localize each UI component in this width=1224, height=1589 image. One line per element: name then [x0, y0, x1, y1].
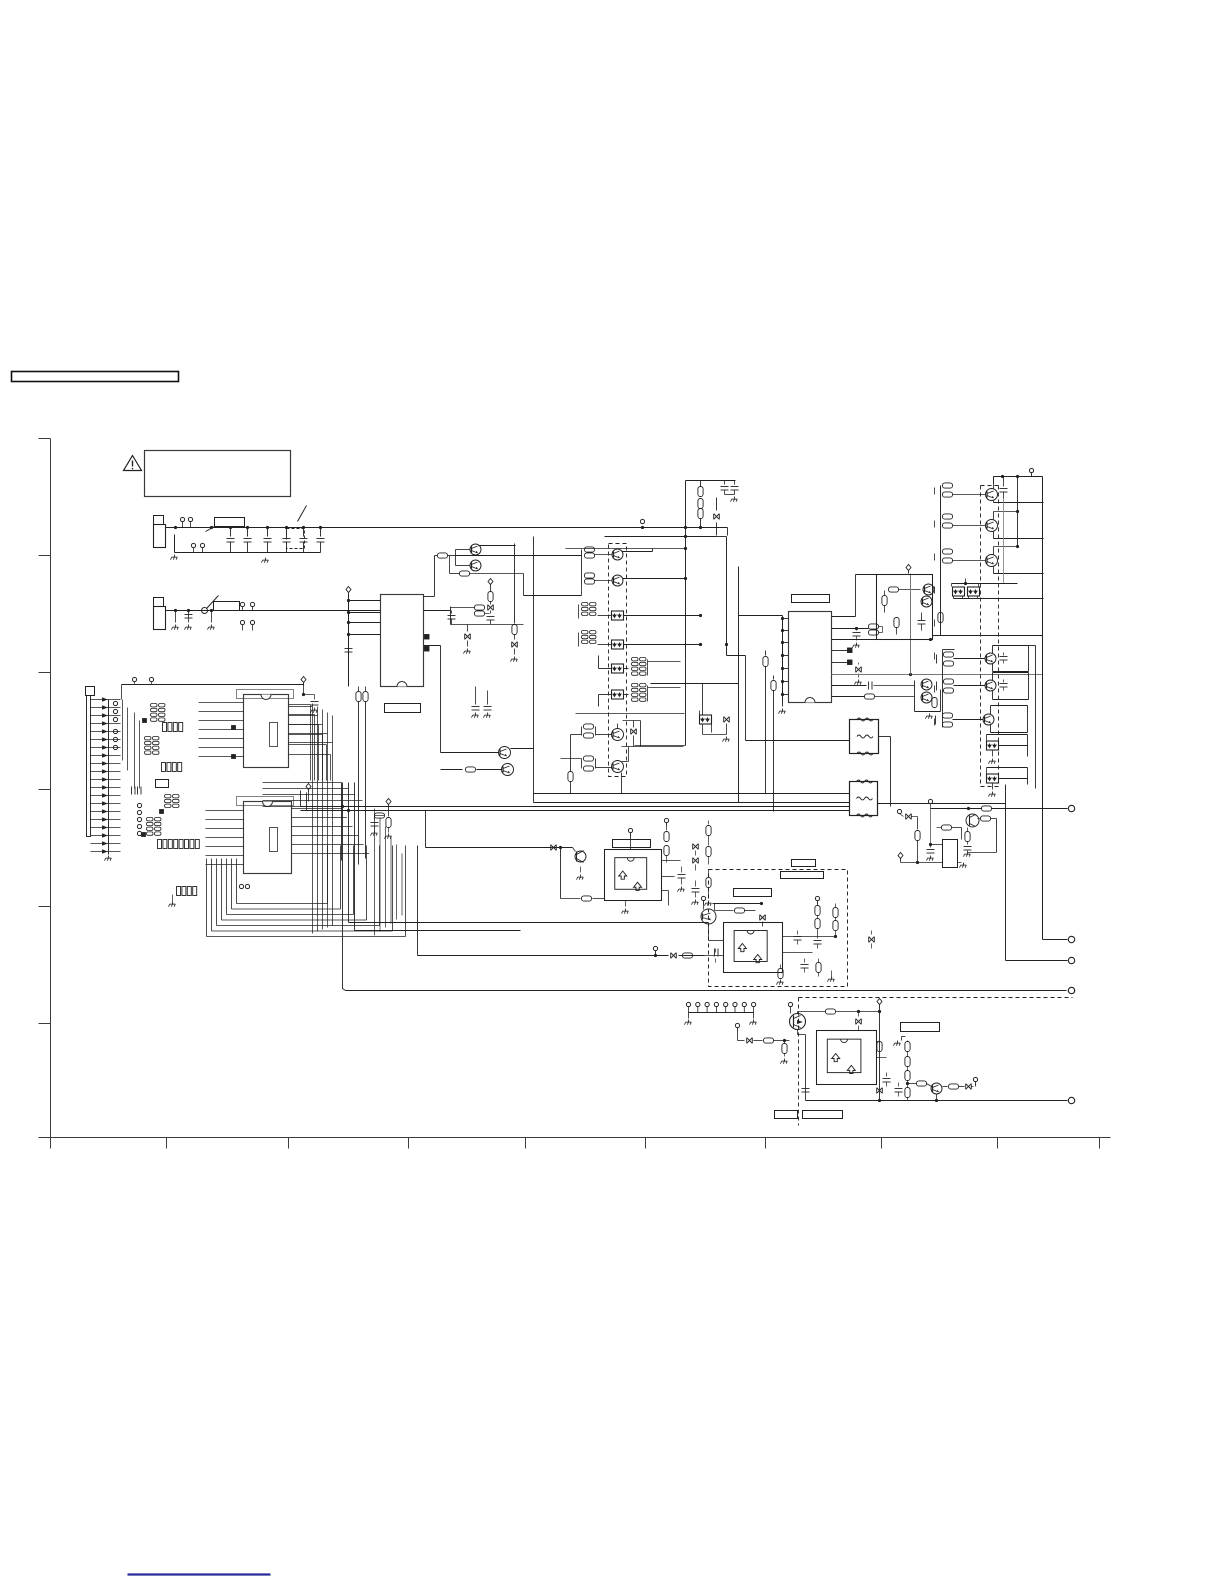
power terminal TP1	[994, 468, 1043, 476]
wire Q61 gate feed	[735, 1023, 744, 1040]
wire A3 link b	[877, 1057, 887, 1059]
dashed control box	[709, 870, 848, 987]
wire A1 top	[628, 828, 632, 849]
wire bottom out	[806, 1095, 1068, 1103]
capacitor C43	[1000, 680, 1008, 691]
terminal TPA	[1068, 805, 1074, 811]
resistor R62	[781, 1041, 788, 1064]
IC U2	[244, 802, 292, 874]
wire Q3 out	[511, 748, 534, 750]
capacitor C53	[678, 867, 686, 892]
dots bundle	[341, 805, 350, 812]
ground CN3	[105, 856, 112, 861]
wire out bus a	[940, 486, 942, 636]
terminal TPC	[1068, 1097, 1074, 1103]
transistor Q11	[921, 679, 932, 690]
IC1 pin wire a	[424, 610, 451, 612]
wire h955b	[679, 955, 705, 957]
wire mid drop b	[487, 691, 489, 701]
optocoupler PC3	[612, 664, 624, 673]
comparator A1	[605, 850, 662, 901]
wire row1 gnd bus	[175, 552, 321, 554]
wire main out B	[301, 810, 850, 812]
mid bus tops	[263, 783, 370, 807]
IC2 label box	[792, 595, 830, 603]
resistor R73	[964, 828, 972, 857]
dashed box row1	[287, 529, 305, 549]
wire A2 out right	[783, 935, 838, 938]
resistor R63	[826, 1009, 882, 1014]
IC U1	[244, 695, 289, 768]
capacitor C58	[801, 959, 809, 973]
capacitor C41	[1000, 477, 1008, 499]
CN3 pin arrows	[103, 698, 107, 853]
IC U1 header	[237, 690, 294, 699]
resistor array RA16	[177, 887, 197, 896]
wire out seg	[931, 806, 1068, 811]
resistor R53	[664, 829, 669, 863]
wire reg in	[931, 844, 943, 846]
power TP Q61	[788, 1002, 792, 1013]
wire T1 right	[879, 737, 891, 807]
wire row1 main	[166, 527, 728, 529]
resistor pair RA6	[585, 573, 613, 584]
power rail x879	[877, 999, 882, 1101]
wire A2 out right2	[783, 952, 813, 954]
comparator A3	[817, 1031, 877, 1085]
transistor Q62	[931, 1083, 942, 1094]
wires RA feeds	[121, 701, 151, 758]
wire h740	[576, 714, 850, 746]
wire A1 right cluster	[662, 861, 681, 877]
wire h683	[651, 683, 739, 685]
U1 right pin wires	[289, 705, 331, 781]
wire x425 drop	[425, 811, 427, 848]
transistor Q8	[612, 761, 624, 773]
U2 bundle drops	[375, 809, 403, 936]
terminal TPB	[1068, 987, 1074, 993]
IC U2 header	[237, 797, 294, 806]
capacitor C61	[802, 1085, 810, 1093]
power dia reg	[898, 853, 903, 863]
wire h802	[534, 802, 850, 804]
wire A3 link a	[877, 1041, 880, 1043]
wire PC1 out	[624, 615, 701, 617]
wire pwr riser	[1017, 477, 1019, 547]
wire h955 into box	[705, 955, 724, 957]
diode D62	[856, 1012, 862, 1031]
cap row2	[185, 615, 193, 619]
label box LB6	[803, 1111, 843, 1119]
resistor R22	[763, 651, 768, 794]
IC2 pin r5	[832, 660, 853, 665]
diode D11	[488, 605, 494, 611]
connector CN3	[86, 687, 95, 837]
pin square c	[142, 833, 146, 837]
label box LB3	[734, 889, 772, 897]
capacitor C57	[794, 931, 802, 945]
optocoupler PC2	[612, 640, 624, 649]
terminal TPE	[1068, 936, 1074, 942]
optocoupler PC6	[953, 587, 965, 596]
wire opto out	[954, 597, 1044, 599]
capacitor C32	[918, 613, 926, 631]
transformer T1	[850, 718, 879, 755]
wire bus x685	[685, 481, 687, 746]
junction dots row1	[174, 526, 213, 529]
optocoupler PC7	[968, 587, 980, 596]
resistor R57	[815, 896, 820, 934]
resistor R14	[441, 767, 502, 772]
cluster right of U2	[371, 799, 392, 839]
dashed isolation box	[609, 544, 627, 777]
IC2 box	[789, 612, 832, 703]
wire h922	[349, 922, 709, 924]
relay RL1	[202, 596, 240, 614]
pin header J2	[686, 1002, 755, 1018]
capacitor C71	[927, 845, 935, 861]
resistor R67	[877, 1042, 882, 1052]
detector Q52	[575, 851, 586, 863]
resistor R11	[475, 605, 490, 616]
ground row1 a	[171, 555, 178, 560]
U2 right wire links	[292, 809, 370, 854]
wire opto loop b	[987, 768, 1028, 785]
resistor R64	[905, 1041, 910, 1101]
CN3 pad circles col2	[137, 803, 141, 835]
mosfet Q61	[790, 1014, 806, 1030]
output stage Q23	[941, 545, 1044, 574]
diode D54	[760, 915, 766, 927]
wire h955	[418, 955, 669, 957]
wire h990	[346, 990, 1067, 992]
wire PC4 in	[599, 688, 681, 707]
IC2 pin r6 gray	[832, 673, 1043, 676]
bus drop x365	[363, 687, 368, 859]
IC2 gnd	[779, 703, 786, 714]
transistor Q7	[612, 729, 624, 741]
resistor R23	[771, 676, 776, 812]
capacitors row1	[227, 526, 325, 553]
border ticks left	[39, 556, 51, 1024]
transistor Q10	[921, 596, 932, 607]
transistor Q4	[502, 764, 514, 776]
IC1 label box	[385, 704, 421, 713]
capacitor C12	[472, 701, 480, 718]
wire reg bottom	[901, 861, 943, 864]
output stage Q22	[941, 510, 1044, 539]
capacitor C11	[448, 611, 456, 625]
resistor array RA9	[624, 658, 648, 676]
wire Q61 source	[798, 1030, 806, 1101]
power Y D63	[972, 1077, 978, 1086]
diode D71	[906, 814, 918, 830]
horizontal h548	[566, 547, 688, 550]
optocoupler PC8	[987, 741, 999, 764]
transformer T2	[850, 780, 878, 817]
wire mid drop a	[475, 687, 477, 701]
ground box	[828, 971, 835, 982]
diode D21	[714, 498, 720, 536]
pin square b	[160, 810, 164, 814]
optocoupler PC1	[612, 611, 624, 620]
transistor Q1	[470, 544, 481, 555]
gray cap drop	[1003, 499, 1005, 584]
resistor R35	[894, 618, 899, 635]
U2 power	[306, 784, 311, 802]
diode D55	[869, 931, 875, 949]
output stage Q24	[937, 646, 1029, 672]
border ticks bottom	[167, 1138, 1100, 1149]
diode D12	[464, 625, 471, 654]
wire left bus x570	[561, 735, 582, 794]
U1 pin square a	[232, 726, 236, 730]
junction dots row2	[174, 609, 213, 612]
wire PC2 out	[624, 644, 701, 646]
wire top y683	[122, 685, 304, 700]
label box LB4	[901, 1023, 940, 1032]
resistor R74	[968, 816, 997, 853]
wire x417 drop	[417, 846, 419, 956]
wire x342 drop	[343, 783, 346, 991]
power dia K1	[906, 565, 911, 574]
U2 inner window	[270, 828, 278, 852]
capacitor C22	[725, 481, 739, 502]
diode D23	[723, 717, 730, 742]
ground A1	[577, 867, 584, 880]
transistor Q5	[612, 549, 623, 560]
wire row1 to x727	[727, 528, 729, 536]
U1 pin square b	[232, 755, 236, 759]
wire y555 long	[456, 555, 582, 557]
capacitor C13	[484, 701, 492, 718]
grounds row2	[172, 611, 215, 630]
wire h847	[426, 847, 573, 849]
comparator A2	[724, 923, 783, 973]
diode D52	[671, 953, 677, 959]
resistor R32	[869, 624, 883, 635]
wire box right link	[848, 936, 872, 938]
wire Q2 out	[450, 556, 524, 596]
wire bus top	[686, 480, 736, 482]
gray rail x930	[929, 807, 932, 847]
capacitor C51	[132, 787, 136, 795]
wire Q8 emitter	[621, 773, 623, 794]
dashed right box	[981, 486, 999, 787]
IC1 pin loop	[451, 607, 524, 625]
IC1 box	[381, 595, 424, 687]
power Y h955	[653, 946, 657, 957]
footer link line	[128, 1573, 271, 1575]
resistor R72	[937, 825, 962, 840]
wire row2 main	[166, 610, 381, 612]
wire opto bus	[952, 579, 1018, 587]
power dia top	[301, 677, 306, 686]
dashed run bottom	[799, 997, 1073, 999]
IC2 left rail	[782, 616, 784, 703]
driver box K1	[877, 575, 933, 640]
wire q62 base	[906, 1081, 932, 1087]
comparator A1 label	[613, 840, 651, 848]
resistor array RA8	[579, 631, 612, 647]
diode D61	[747, 1038, 753, 1044]
label box LB2	[781, 872, 824, 879]
CN3 bus vertical	[108, 700, 110, 855]
connector CN2	[154, 598, 166, 630]
CN3 crossing bus wires	[123, 700, 140, 789]
diode D22	[631, 721, 637, 747]
test points row2	[240, 602, 254, 610]
U1 inner window	[270, 723, 278, 747]
resistor pair RA12	[582, 756, 612, 771]
optocoupler PC4	[612, 690, 624, 699]
output stage Q21	[941, 477, 1044, 503]
test point TP8	[897, 809, 903, 816]
wire h930	[355, 930, 521, 932]
resistor R61	[764, 1038, 790, 1043]
jumper row1	[298, 506, 307, 522]
label box LB5	[775, 1111, 798, 1119]
resistor array RA15	[158, 840, 200, 849]
resistor R12	[511, 544, 518, 662]
wire y595 long	[524, 586, 582, 596]
wire A2 feed	[709, 924, 724, 941]
IC2 pin r2	[832, 628, 869, 630]
capacitor C64	[895, 1083, 903, 1097]
regulator U71	[943, 840, 958, 868]
wire Q8 collector	[622, 747, 629, 762]
transistor Q53	[701, 909, 716, 924]
ground J2 b	[750, 1020, 757, 1025]
staircase bus wires	[207, 846, 406, 937]
border frame left rail	[50, 439, 52, 1149]
title box	[12, 372, 179, 382]
wire gate	[754, 1040, 763, 1042]
IC1 left cap	[345, 641, 353, 653]
mid bus verticals	[342, 783, 355, 931]
wire out collector d	[1029, 646, 1036, 789]
wire left bend B	[306, 793, 308, 811]
wire Q3 feed	[424, 646, 499, 753]
diode D51	[551, 845, 557, 851]
inductor L1 label	[206, 518, 245, 532]
resistor R13	[438, 550, 471, 566]
wire Q6 out	[623, 578, 686, 580]
label box LB1	[792, 860, 816, 867]
test points row1	[180, 517, 192, 527]
wire row1 drop	[174, 535, 176, 553]
ground A1 bottom	[622, 901, 629, 914]
diode D63	[966, 1084, 972, 1090]
power Q53	[701, 896, 705, 909]
wire main out A	[301, 806, 850, 808]
bus drop x358	[356, 687, 361, 865]
terminal TPD	[1068, 957, 1074, 963]
label box LA1	[156, 780, 169, 788]
mid vertical bundle	[313, 704, 333, 934]
CN3 pin wires	[91, 700, 121, 852]
border frame bottom rail	[39, 1137, 1111, 1139]
power pwr A1	[664, 818, 668, 828]
wire A1 out	[662, 891, 669, 906]
test points U2	[239, 884, 249, 888]
resistor array RA4	[162, 763, 182, 772]
resistor R52	[561, 896, 605, 901]
resistor pair RA11	[582, 724, 612, 738]
optocoupler PC9	[987, 774, 999, 797]
resistor pair RA5	[582, 547, 613, 586]
capacitor C21	[721, 481, 729, 495]
dashed outer hint	[934, 488, 936, 729]
resistor R41	[938, 613, 943, 623]
wire Q53 c	[713, 902, 764, 911]
dashed vert x798	[798, 998, 800, 1126]
IC2 pin r3	[832, 638, 933, 641]
ground U71	[958, 863, 967, 868]
capacitor C63	[883, 1073, 891, 1087]
junction dots mid	[684, 526, 728, 646]
IC2 pin r8	[832, 694, 915, 699]
wire pc5 link	[703, 684, 727, 735]
capacitor C42	[1000, 653, 1008, 664]
wire Q1 out	[479, 545, 516, 547]
U2 left pin wires	[206, 811, 244, 865]
wire PC3 in	[599, 656, 681, 669]
wire T2 through	[878, 803, 1006, 805]
ground RA16	[169, 895, 176, 907]
capacitor C52	[138, 787, 142, 795]
resistor R60	[816, 959, 821, 977]
wire Q61 drain	[798, 1012, 826, 1014]
wire h535	[605, 535, 717, 538]
resistor R34	[882, 591, 887, 613]
IC1 pin sq b	[425, 647, 430, 652]
wire bus x726	[717, 537, 746, 741]
node row1 junction	[640, 519, 644, 529]
CN3 pad circles col1	[113, 701, 117, 749]
transistor Q9	[923, 584, 934, 595]
resistor R51	[683, 953, 693, 958]
transistor Q6	[612, 575, 623, 586]
IC2 pin r7	[832, 682, 915, 690]
diode D32	[855, 663, 862, 685]
U1 power cap	[302, 684, 319, 713]
resistor array RA2	[163, 723, 183, 732]
wire driver link	[933, 635, 1043, 637]
connector CN1	[154, 516, 166, 548]
capacitor C55	[715, 949, 719, 963]
output stage Q26	[936, 706, 1028, 733]
wire out bus b	[943, 650, 955, 728]
warning triangle	[124, 456, 142, 471]
resistor array RA13	[165, 795, 180, 808]
capacitor C54	[692, 881, 700, 905]
wire A1 in	[559, 846, 605, 899]
transistor Q12	[921, 692, 932, 703]
resistor array RA7	[579, 603, 612, 619]
U1 left pin wires	[199, 703, 244, 757]
transistor Q2	[470, 560, 481, 571]
IC1 input rail	[346, 587, 351, 687]
resistor R36	[932, 698, 937, 708]
resistor R31	[887, 587, 921, 592]
resistor R54	[706, 821, 711, 865]
resistor R59	[777, 965, 784, 985]
wire U2 right a	[292, 806, 342, 808]
wire top bus drop	[994, 475, 1020, 484]
resistor array RA3	[145, 737, 160, 755]
capacitor C56	[814, 935, 822, 949]
